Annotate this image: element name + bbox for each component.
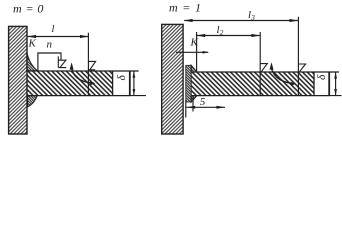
dimension l2 line [197,35,260,37]
beam end edge [129,71,131,96]
svg-text:m = 0: m = 0 [13,2,44,16]
beam outline [27,71,130,96]
beam (horizontal, hatched section) [191,72,314,96]
leader arrow curving in right beam [270,62,274,69]
wall (left, hatched) [9,26,27,134]
delta dimension ticks and line [130,71,146,96]
dimension n bracket [38,53,61,71]
svg-text:m = 1: m = 1 [169,1,202,15]
bottom weld at plate [191,96,197,102]
weld symbol flag 3 (on l2 extension) [260,64,267,72]
svg-text:l2: l2 [217,24,224,37]
beam (horizontal, hatched section) [27,71,113,96]
svg-text:δ: δ [316,74,328,80]
svg-text:δ: δ [116,75,128,81]
wall (right, hatched) [162,24,183,134]
svg-text:K: K [190,37,199,49]
top weld at plate [191,65,197,72]
dimension l line [28,36,89,38]
svg-text:K: K [28,38,37,50]
delta dimension ticks and line (right) [329,72,341,96]
lower fillet weld at wall [28,96,38,107]
dimension l left arrow [27,35,36,38]
leader arrow curving in beam [70,62,74,69]
weld symbol flag 1 [58,56,66,67]
l2 right extension line through beam [259,32,261,96]
dimension S (5) of plate [186,96,193,118]
svg-text:n: n [47,39,53,51]
lap plate between wall and beam [186,65,191,102]
beam outline [191,72,329,96]
l2 left extension line [196,32,198,72]
svg-text:5: 5 [200,96,206,108]
weld symbol flag 4 (on l3 extension) [298,64,305,72]
extension line of l through beam [87,33,89,96]
l3 extension line through weld and beam [297,17,299,96]
beam end edge [328,72,330,96]
upper fillet weld at wall [27,53,38,71]
weld symbol flag 2 (on l extension) [88,61,95,69]
svg-text:l3: l3 [248,9,255,22]
dimension l right arrow [80,35,89,38]
dimension l3 line [184,20,298,22]
svg-text:l: l [52,24,55,35]
